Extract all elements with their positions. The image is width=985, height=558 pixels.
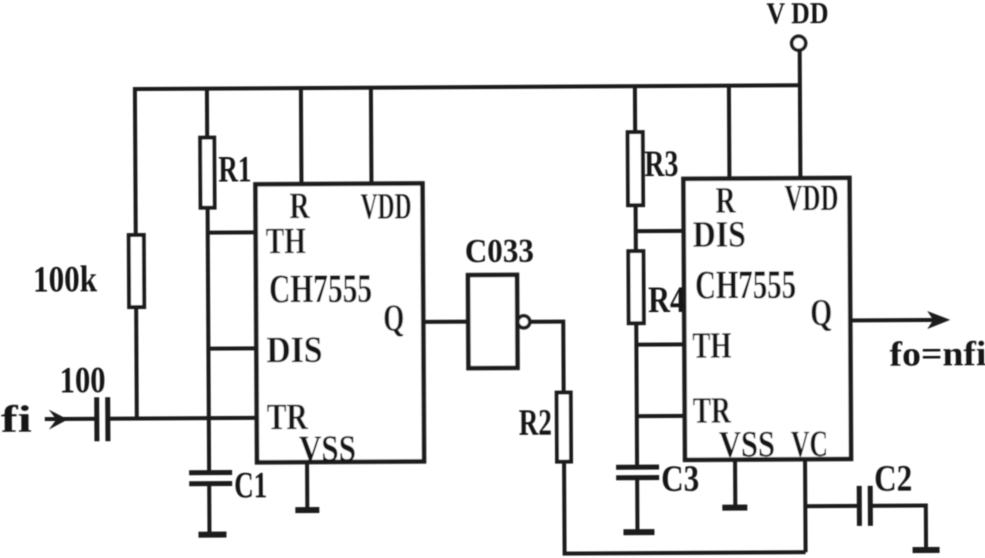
svg-text:C2: C2 <box>874 459 912 500</box>
svg-text:VDD: VDD <box>360 186 411 227</box>
wire C1 lower lead <box>207 484 211 534</box>
ground C2 <box>913 547 940 553</box>
svg-text:R3: R3 <box>644 144 678 185</box>
svg-text:C033: C033 <box>465 233 534 270</box>
node fo output arrowhead <box>927 311 950 329</box>
wire C3 lower lead <box>635 478 639 531</box>
svg-text:V DD: V DD <box>766 0 828 30</box>
svg-text:100: 100 <box>59 360 105 401</box>
wire chip2 DIS <box>636 229 684 233</box>
resistor R2 <box>557 393 571 462</box>
svg-text:VDD: VDD <box>784 178 838 219</box>
resistor R4 <box>628 251 643 323</box>
svg-text:CH7555: CH7555 <box>269 266 372 312</box>
wire chip1 TH <box>208 230 256 234</box>
inverter gate C033 box <box>468 275 518 368</box>
VDD supply terminal circle <box>792 36 806 50</box>
capacitor C3 plates <box>616 467 659 478</box>
svg-text:CH7555: CH7555 <box>695 262 796 308</box>
wire R3/R4/C3 chain <box>635 86 637 467</box>
wire bottom return <box>563 552 806 553</box>
svg-text:f‌i: f‌i <box>1 399 32 441</box>
ground C1 <box>198 532 226 538</box>
ground C3 <box>623 529 654 535</box>
capacitor 100 input plates <box>97 397 108 441</box>
wire chip2 R pin <box>727 86 732 179</box>
wire C2 branch left <box>805 504 857 508</box>
resistor R1 <box>200 138 214 208</box>
svg-text:fo=nf‌i: fo=nf‌i <box>889 334 985 374</box>
wire chip1 VSS pin <box>305 462 309 510</box>
svg-text:DIS: DIS <box>266 330 322 371</box>
ground chip1 VSS <box>295 507 319 513</box>
svg-text:C1: C1 <box>234 465 267 506</box>
wire chip1 VDD pin <box>369 88 374 184</box>
svg-text:VC: VC <box>791 424 828 465</box>
svg-text:TH: TH <box>266 221 306 262</box>
wire top supply bus <box>133 85 800 89</box>
wire chip2 TH <box>636 342 684 346</box>
svg-text:TH: TH <box>692 326 731 367</box>
wire left rail (100k branch) <box>135 87 137 418</box>
svg-text:R4: R4 <box>648 280 685 321</box>
svg-text:DIS: DIS <box>693 215 746 256</box>
resistor 100k <box>129 235 144 307</box>
svg-text:Q: Q <box>383 298 404 340</box>
ground chip2 VSS <box>722 505 747 511</box>
IC U2 timer CH7555 chip2 body <box>683 178 851 460</box>
svg-text:R1: R1 <box>218 149 251 190</box>
wire chip2 VSS pin <box>733 460 737 506</box>
svg-text:Q: Q <box>810 292 832 334</box>
IC U1 timer CH7555 chip1 body <box>255 183 424 462</box>
svg-text:C3: C3 <box>661 459 699 500</box>
wire chip2 VC pin <box>803 459 808 552</box>
capacitor C1 plates <box>189 473 232 484</box>
wire C2 branch right <box>872 506 926 550</box>
wire TR1 line from cap to chip <box>108 416 257 421</box>
wire fi input segment <box>45 417 97 421</box>
wire chip2 TR <box>637 414 685 418</box>
wire chip1 DIS <box>208 346 256 350</box>
resistor R3 <box>628 132 643 205</box>
svg-text:100k: 100k <box>33 259 98 300</box>
wire C033 output to R2 <box>530 322 564 554</box>
wire VDD terminal drop <box>798 50 803 178</box>
svg-text:VSS: VSS <box>299 429 356 470</box>
svg-text:R2: R2 <box>519 403 552 444</box>
node fi input arrowhead <box>49 409 68 429</box>
wire chip1 Q output <box>423 320 468 324</box>
wire R1/C1 chain <box>207 89 209 473</box>
svg-text:VSS: VSS <box>719 424 775 465</box>
wire chip1 R pin <box>299 88 304 184</box>
wire chip2 Q output <box>850 318 938 323</box>
capacitor C2 plates <box>859 486 870 526</box>
inverter gate C033 bubble <box>518 316 530 328</box>
